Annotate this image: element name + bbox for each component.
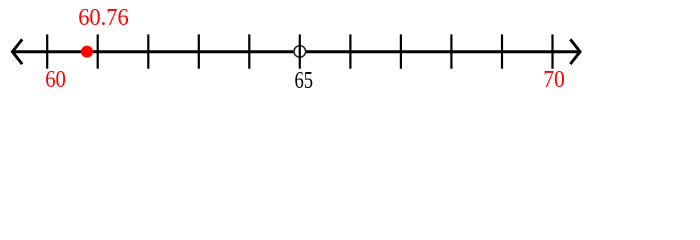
svg-text:65: 65 (295, 68, 314, 94)
tick 60 (46, 34, 48, 68)
tick 64 (248, 34, 250, 68)
svg-text:70: 70 (543, 67, 565, 93)
open circle at 65 (294, 46, 306, 58)
tick 68 (450, 34, 452, 68)
tick 61 (97, 34, 99, 68)
tick 69 (501, 34, 503, 68)
tick 70 (551, 34, 553, 68)
wire: main horizontal number line (13, 50, 580, 53)
svg-text:60.76: 60.76 (78, 5, 129, 31)
tick 65 (299, 34, 301, 68)
number line diagram (0, 0, 700, 100)
left arrowhead (12, 39, 22, 64)
tick 63 (198, 34, 200, 68)
point at 60.76 (red dot) (81, 46, 93, 58)
svg-text:60: 60 (45, 67, 66, 93)
tick 62 (147, 34, 149, 68)
tick 67 (400, 34, 402, 68)
right arrowhead (570, 39, 580, 64)
tick 66 (349, 34, 351, 68)
